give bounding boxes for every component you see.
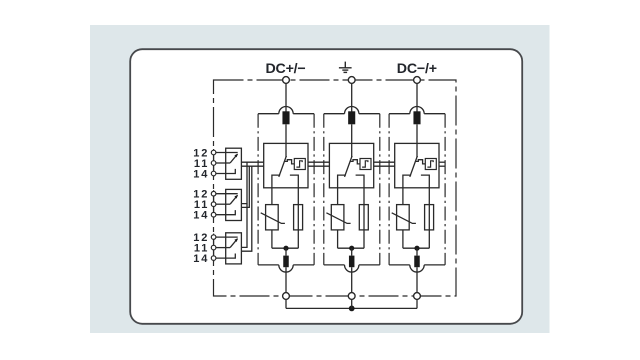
bus pair: FM box to module 1 switch: [241, 161, 263, 163]
white rounded product panel: [130, 49, 522, 324]
SPD module 1 (DC+/-): [258, 77, 314, 309]
SPD module 3 (DC-/+): [389, 77, 445, 309]
background mat: [90, 25, 550, 333]
svg-text:14: 14: [193, 210, 209, 222]
earth symbol: [339, 62, 352, 73]
riser wire contact 3 upper: [241, 204, 247, 248]
bus pair: module3 to module edge: [439, 161, 445, 163]
SPD module 2 (earth): [324, 77, 380, 309]
riser wire contact 3 lower: [241, 166, 251, 251]
FM contact group 1: [211, 148, 241, 179]
bus pair: module2 to module3: [374, 161, 395, 163]
riser wire contact 2 lower: [241, 166, 249, 207]
svg-text:DC+/−: DC+/−: [265, 61, 305, 77]
riser wire contact 2 upper: [241, 162, 247, 203]
svg-text:14: 14: [193, 253, 209, 265]
terminal labels group 1: [193, 147, 209, 265]
bus pair: module1 to module2: [308, 161, 329, 163]
signal bus pair segments: [241, 162, 445, 166]
FM contact group 3: [211, 233, 241, 264]
svg-text:DC−/+: DC−/+: [397, 61, 437, 77]
outer unit boundary (dash-dot): [214, 80, 457, 296]
bottom bus junction dot: [349, 306, 355, 312]
bottom equipotential bus: [286, 307, 417, 309]
svg-text:14: 14: [193, 168, 209, 180]
FM contact group 2: [211, 189, 241, 220]
